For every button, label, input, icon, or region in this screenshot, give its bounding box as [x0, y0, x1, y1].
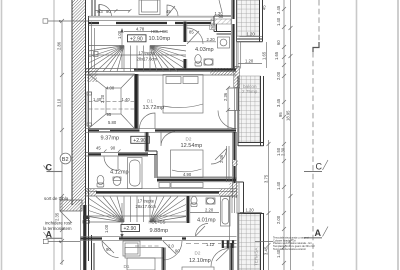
upper room furniture (cut): [139, 0, 160, 15]
dim 2.20 bath: [187, 37, 216, 42]
stair upper newel box: [94, 52, 99, 57]
wall 12.54 left jog: [145, 132, 157, 178]
svg-text:17 trepte: 17 trepte: [138, 199, 155, 204]
svg-text:3.10: 3.10: [57, 98, 62, 107]
door bath upper arc: [187, 28, 203, 44]
svg-text:43: 43: [98, 9, 103, 14]
svg-text:17 trepte: 17 trepte: [139, 51, 156, 56]
svg-text:inchidere rost: inchidere rost: [45, 221, 72, 226]
door hall-D3 arc: [102, 241, 119, 258]
section marker C right: [304, 160, 328, 172]
svg-text:45: 45: [262, 5, 267, 10]
svg-text:2.00: 2.00: [276, 71, 281, 80]
svg-text:1.40: 1.40: [122, 97, 131, 102]
terrace side wall step: [237, 182, 244, 213]
right dim chain main: [274, 0, 286, 270]
bed D2 bottom cut: [182, 267, 214, 270]
wardrobe strip below 12.54: [159, 183, 203, 188]
top wall step right: [214, 16, 231, 34]
wall hall/bath divider upper: [183, 22, 187, 69]
svg-text:2.00: 2.00: [276, 215, 281, 224]
dim line top-left: [95, 9, 131, 12]
svg-text:4.90: 4.90: [183, 172, 192, 177]
svg-text:la termosistem: la termosistem: [43, 226, 72, 231]
door 12.54 arc: [211, 149, 227, 165]
svg-text:4.00: 4.00: [106, 86, 115, 91]
door D1 bottom arc: [140, 113, 156, 129]
right wall lower section: [227, 132, 239, 198]
svg-text:90: 90: [106, 9, 111, 14]
dim 1.20 below balcony top: [238, 59, 262, 64]
wardrobe D2 top: [125, 246, 163, 258]
door top-left with arc: [98, 4, 112, 16]
svg-text:B2: B2: [62, 157, 69, 163]
sheet fold line right edge: [397, 0, 399, 270]
svg-text:2.20: 2.20: [207, 37, 216, 42]
top wall of upper unit: [89, 16, 215, 25]
svg-text:1.40: 1.40: [276, 181, 281, 190]
elevation box 90: [210, 25, 216, 30]
balcony top parapet: [237, 0, 263, 42]
bed D1: [163, 75, 203, 114]
svg-text:45: 45: [166, 9, 171, 14]
svg-text:90: 90: [111, 146, 116, 151]
level box +2.90 mid: [131, 136, 150, 144]
left dim chain: [55, 19, 65, 265]
svg-text:1.20: 1.20: [247, 31, 256, 36]
svg-text:3.45: 3.45: [276, 98, 281, 107]
svg-text:2.30: 2.30: [281, 147, 286, 156]
svg-text:1.20: 1.20: [246, 207, 255, 212]
legend note block: [255, 236, 315, 251]
hall bottom wall (y236-241): [81, 237, 237, 241]
svg-text:2.20: 2.20: [205, 208, 214, 213]
void dims: [93, 86, 130, 126]
svg-text:95: 95: [278, 112, 283, 117]
bed 12.54: [171, 150, 204, 178]
party wall band 2 (y188-196): [86, 189, 237, 197]
dim 2.20 lower bath: [190, 208, 219, 213]
furniture D2: [127, 258, 155, 270]
terrace bottom tiles: [239, 213, 261, 270]
svg-text:1.12: 1.12: [206, 242, 215, 247]
bath 4.12 bidet: [113, 177, 121, 186]
wardrobe right of door: [123, 241, 140, 256]
wall between D1 lower and D2: [162, 248, 164, 270]
bath 4.03 toilet: [195, 55, 202, 66]
svg-text:3.75: 3.75: [264, 174, 269, 183]
wall 9.37/4.12 divider (y152-156): [86, 153, 149, 157]
right wall D1 window: [228, 88, 240, 111]
party wall band 1 (y68-75): [86, 68, 237, 75]
svg-text:2.20: 2.20: [100, 94, 105, 103]
level box +2.90 lower: [121, 225, 140, 233]
svg-text:1.20: 1.20: [245, 59, 254, 64]
stair text 17 trepte: [137, 51, 158, 62]
svg-text:3.45: 3.45: [276, 5, 281, 14]
svg-text:1.65: 1.65: [274, 51, 279, 60]
left wall below step: [83, 205, 86, 270]
svg-text:3.45: 3.45: [264, 246, 269, 255]
balcony mid parapet: [238, 76, 264, 146]
door hall-D2 arc: [163, 241, 182, 260]
elevation marker box top left: [43, 19, 88, 23]
bath 4.01 sink: [206, 198, 215, 204]
svg-text:TERASA: TERASA: [254, 247, 259, 266]
svg-text:5.80: 5.80: [108, 120, 117, 125]
svg-text:4.12mp: 4.12mp: [110, 170, 129, 176]
dim 2.36 rotated right wall: [223, 86, 230, 129]
balcony top dim 1.20: [240, 31, 263, 36]
section marker A right: [304, 227, 328, 239]
hatched pier top of void: [87, 75, 97, 82]
stair lower arrow: [120, 203, 123, 239]
svg-text:13.72mp: 13.72mp: [143, 105, 165, 111]
svg-text:90: 90: [175, 249, 180, 254]
wall void/D1 divider: [135, 74, 138, 129]
section marker A left: [44, 230, 63, 240]
right wall window lower: [230, 196, 238, 213]
D2 top wall dashed (y243): [186, 241, 237, 249]
svg-text:90: 90: [106, 247, 111, 252]
bath 4.03 sink: [204, 59, 213, 65]
right wall D1 hatched pier: [234, 67, 240, 88]
svg-text:9.88mp: 9.88mp: [150, 228, 169, 234]
svg-text:HOL+CS: HOL+CS: [151, 29, 168, 34]
stair upper fan: [89, 46, 187, 72]
svg-text:A: A: [315, 228, 322, 238]
svg-text:1.65: 1.65: [262, 51, 267, 60]
svg-text:D1: D1: [124, 264, 130, 269]
stair lower texts: [136, 199, 157, 210]
bath 4.01 tub: [221, 197, 231, 227]
svg-text:1.00: 1.00: [117, 30, 122, 39]
window sill detail left wall: [83, 216, 90, 220]
bath 4.01 toilet: [191, 196, 197, 206]
svg-text:2.75mp: 2.75mp: [242, 89, 258, 94]
elevation marker box bottom left: [43, 239, 80, 243]
door bath lower arc: [196, 224, 209, 237]
svg-text:sort de tabla: sort de tabla: [44, 196, 69, 201]
void dashed lines: [89, 102, 135, 110]
upper room wall stub: [92, 0, 95, 16]
sheet fold line x54: [53, 0, 55, 270]
door 12.54 top arc: [161, 132, 175, 146]
svg-text:10.10mp: 10.10mp: [149, 36, 171, 42]
svg-text:1.40: 1.40: [276, 17, 281, 26]
stair hall upper: railing: [92, 22, 95, 69]
wall D1 bottom (y128-132): [86, 129, 237, 133]
svg-text:4.01mp: 4.01mp: [197, 218, 216, 224]
door top-mid arc: [166, 5, 178, 16]
left exterior wall hatched: [72, 0, 89, 261]
balcony mid tiles: [239, 76, 261, 143]
svg-text:Tencuiala decorativa exterior: Tencuiala decorativa exterior: [273, 247, 306, 251]
svg-text:4.78: 4.78: [136, 27, 145, 32]
door 9.37 arc: [96, 146, 121, 171]
svg-text:18.95: 18.95: [286, 110, 291, 121]
sheet fold line x356: [356, 0, 358, 270]
stair up arrow: [120, 28, 123, 69]
svg-text:D2: D2: [186, 137, 192, 142]
sheet fold line left edge: [1, 0, 3, 270]
bath 4.12 tub: [128, 158, 143, 189]
svg-text:2.36: 2.36: [219, 154, 224, 163]
sort de tabla hatched step detail: [60, 200, 82, 223]
svg-text:12.54mp: 12.54mp: [181, 143, 203, 149]
balcony top tiles: [237, 0, 260, 37]
svg-text:D2: D2: [195, 251, 201, 256]
svg-text:C: C: [316, 162, 323, 172]
wall hall/bath divider lower: [186, 196, 190, 223]
door leaf above bath: [219, 0, 222, 12]
corner column below balcony top: [238, 42, 241, 69]
property dashed line: [313, 0, 319, 270]
window top right hatched: [211, 11, 231, 24]
svg-text:4.03mp: 4.03mp: [195, 47, 214, 53]
dim 1.65 right of balcony top: [262, 42, 267, 68]
svg-text:2.36: 2.36: [223, 92, 228, 101]
level box +2.90 upper: [128, 35, 147, 43]
right dim chain inner: [264, 140, 271, 270]
svg-text:+2.90: +2.90: [130, 36, 143, 42]
balcony mid label: [242, 84, 258, 94]
bath 4.12 toilet: [97, 175, 104, 187]
section marker C left: [44, 163, 63, 173]
dim 4.90: [157, 172, 232, 177]
svg-text:95: 95: [107, 112, 112, 117]
svg-text:+2.90: +2.90: [133, 138, 146, 144]
stair lower fan: [89, 197, 187, 223]
detail circle B2: [60, 153, 71, 164]
svg-text:45: 45: [96, 146, 101, 151]
radiator left wall void room: [87, 92, 92, 126]
right wall bottom: [230, 243, 232, 270]
svg-text:60: 60: [219, 14, 224, 19]
void diagonals: [89, 74, 135, 129]
svg-text:HOL+CS: HOL+CS: [149, 220, 166, 225]
svg-text:D1: D1: [147, 99, 153, 104]
wall 12.54 bottom (y178-182): [157, 178, 237, 182]
door D1 balcony arc: [218, 111, 236, 129]
terrace dim 1.20: [240, 207, 262, 212]
door D2 right arc: [211, 249, 229, 267]
bath 4.03 shower: [218, 37, 230, 48]
svg-text:2.0: 2.0: [168, 244, 174, 249]
terrace edge lines: [238, 213, 264, 270]
svg-text:1.00: 1.00: [104, 224, 109, 233]
svg-text:60: 60: [276, 40, 281, 45]
overall dim line: [286, 0, 293, 270]
svg-text:12.10mp: 12.10mp: [189, 258, 211, 264]
void over stair: outer rect: [89, 74, 135, 129]
left wall inner lines bottom: [92, 235, 95, 270]
right exterior wall upper: [232, 0, 237, 69]
svg-text:+2.90: +2.90: [124, 226, 137, 232]
svg-text:28x17.0cm: 28x17.0cm: [136, 204, 157, 209]
svg-text:85: 85: [189, 30, 194, 35]
dim 4.78: [124, 27, 166, 32]
svg-text:28x17.6cm: 28x17.6cm: [137, 56, 158, 61]
inchidere rost note: [43, 221, 72, 232]
svg-text:90: 90: [211, 25, 216, 30]
svg-text:2.86: 2.86: [57, 41, 62, 50]
svg-text:9.37mp: 9.37mp: [101, 136, 120, 142]
